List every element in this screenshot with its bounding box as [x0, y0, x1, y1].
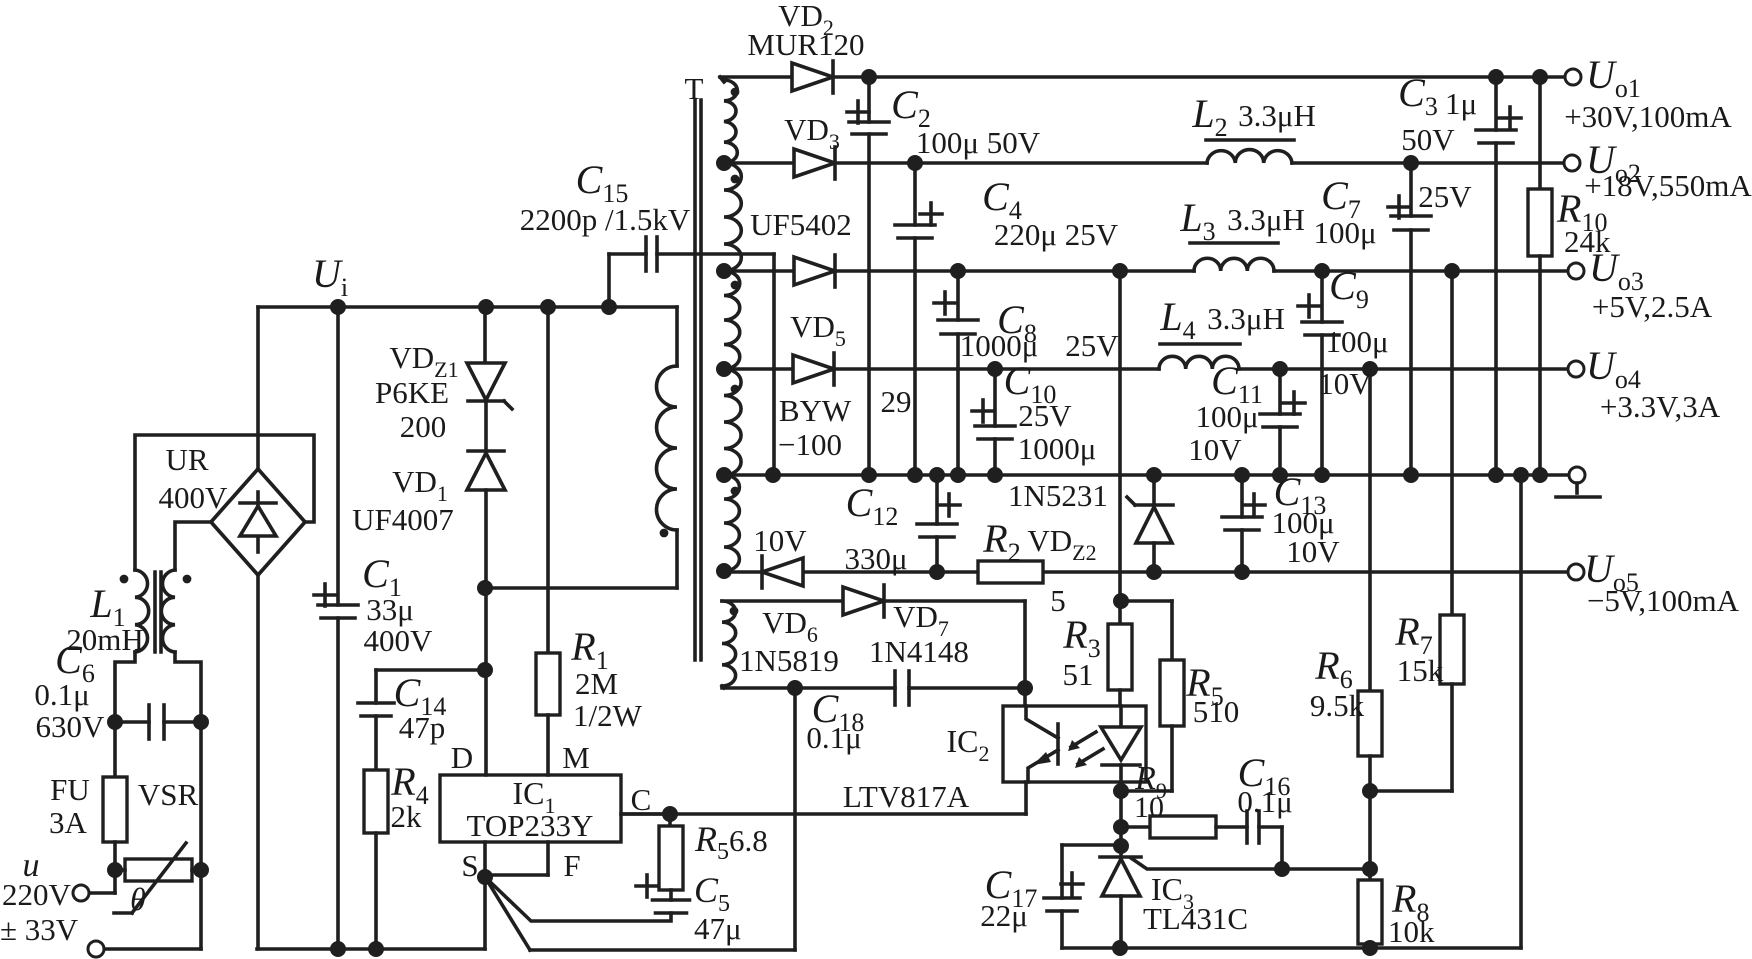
svg-text:0.1μ: 0.1μ [806, 720, 861, 755]
svg-text:25V: 25V [1018, 398, 1072, 433]
svg-text:220μ 25V: 220μ 25V [994, 217, 1119, 252]
svg-text:510: 510 [1193, 694, 1240, 729]
svg-text:+18V,550mA: +18V,550mA [1584, 168, 1752, 203]
svg-text:FU: FU [50, 772, 90, 807]
svg-text:22μ: 22μ [980, 898, 1028, 933]
svg-text:+3.3V,3A: +3.3V,3A [1600, 389, 1721, 424]
svg-text:1N4148: 1N4148 [869, 634, 969, 669]
svg-text:10V: 10V [1188, 432, 1242, 467]
svg-text:3A: 3A [49, 805, 88, 840]
svg-text:± 33V: ± 33V [0, 912, 79, 947]
svg-text:S: S [461, 848, 478, 883]
svg-text:+5V,2.5A: +5V,2.5A [1592, 289, 1713, 324]
svg-text:630V: 630V [36, 709, 106, 744]
svg-text:+30V,100mA: +30V,100mA [1564, 99, 1732, 134]
svg-text:100μ: 100μ [1325, 324, 1388, 359]
svg-text:3.3μH: 3.3μH [1238, 98, 1316, 133]
svg-text:0.1μ: 0.1μ [34, 677, 89, 712]
svg-text:M: M [562, 740, 590, 775]
svg-text:47p: 47p [399, 710, 446, 745]
svg-text:3.3μH: 3.3μH [1207, 301, 1285, 336]
svg-text:200: 200 [400, 409, 447, 444]
svg-text:10V: 10V [1318, 366, 1372, 401]
svg-text:400V: 400V [159, 480, 229, 515]
svg-text:TOP233Y: TOP233Y [467, 808, 594, 843]
svg-text:VSR: VSR [138, 777, 199, 812]
svg-text:F: F [563, 848, 580, 883]
svg-text:θ: θ [130, 881, 146, 917]
svg-text:1N5231: 1N5231 [1008, 478, 1108, 513]
svg-text:51: 51 [1063, 657, 1094, 692]
svg-text:−100: −100 [778, 427, 842, 462]
svg-text:TL431C: TL431C [1143, 901, 1248, 936]
svg-text:MUR120: MUR120 [747, 27, 864, 62]
svg-text:330μ: 330μ [844, 541, 907, 576]
svg-text:2200p /1.5kV: 2200p /1.5kV [520, 202, 691, 237]
svg-text:1N5819: 1N5819 [739, 643, 839, 678]
svg-text:100μ: 100μ [1195, 399, 1258, 434]
svg-text:100μ: 100μ [1313, 215, 1376, 250]
svg-text:0.1μ: 0.1μ [1237, 784, 1292, 819]
svg-text:1000μ: 1000μ [1018, 431, 1097, 466]
svg-text:BYW: BYW [779, 393, 852, 428]
svg-text:400V: 400V [364, 623, 434, 658]
svg-text:100μ 50V: 100μ 50V [916, 125, 1041, 160]
svg-text:33μ: 33μ [366, 592, 414, 627]
svg-text:10V: 10V [1286, 534, 1340, 569]
svg-text:UF4007: UF4007 [352, 502, 454, 537]
svg-text:2M: 2M [575, 666, 618, 701]
svg-text:10k: 10k [1388, 914, 1435, 949]
svg-text:D: D [451, 740, 473, 775]
svg-text:UF5402: UF5402 [750, 207, 852, 242]
svg-text:220V: 220V [2, 877, 72, 912]
svg-text:50V: 50V [1401, 122, 1455, 157]
svg-text:29: 29 [881, 384, 912, 419]
svg-text:25V: 25V [1065, 328, 1119, 363]
svg-text:9.5k: 9.5k [1310, 688, 1365, 723]
svg-text:1/2W: 1/2W [573, 698, 643, 733]
svg-text:10V: 10V [753, 523, 807, 558]
svg-text:47μ: 47μ [694, 911, 742, 946]
svg-text:LTV817A: LTV817A [843, 779, 970, 814]
svg-text:15k: 15k [1397, 653, 1444, 688]
svg-text:P6KE: P6KE [375, 375, 449, 410]
svg-text:2k: 2k [391, 799, 423, 834]
svg-text:10: 10 [1134, 791, 1164, 824]
svg-text:UR: UR [165, 442, 208, 477]
svg-text:−5V,100mA: −5V,100mA [1587, 583, 1740, 618]
svg-text:C: C [631, 782, 652, 817]
svg-text:3.3μH: 3.3μH [1227, 202, 1305, 237]
svg-text:T: T [685, 71, 704, 106]
svg-text:1μ: 1μ [1445, 86, 1477, 121]
svg-text:25V: 25V [1418, 179, 1472, 214]
